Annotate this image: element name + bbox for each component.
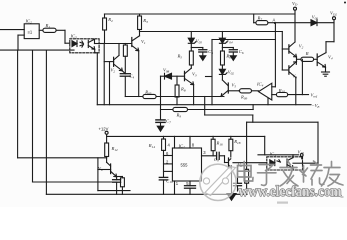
svg-text:R6: R6 <box>225 54 231 60</box>
svg-text:V2: V2 <box>111 68 116 74</box>
svg-text:V10: V10 <box>298 149 305 155</box>
svg-text:V9: V9 <box>98 166 103 172</box>
svg-text:V05: V05 <box>196 39 203 45</box>
svg-text:A: A <box>273 18 276 23</box>
svg-text:V2: V2 <box>299 44 304 50</box>
svg-text:IC2: IC2 <box>25 19 33 25</box>
svg-text:IC4: IC4 <box>256 82 264 88</box>
svg-text:R2: R2 <box>107 17 113 23</box>
svg-text:R09: R09 <box>240 95 248 101</box>
svg-text:R3: R3 <box>142 18 148 24</box>
svg-text:R5: R5 <box>176 54 182 60</box>
svg-text:C5: C5 <box>208 49 213 55</box>
svg-text:Vref: Vref <box>311 93 319 99</box>
svg-text:V1: V1 <box>141 39 146 45</box>
svg-text:C4: C4 <box>129 74 134 80</box>
svg-text:R8: R8 <box>180 87 186 93</box>
svg-text:V5: V5 <box>232 83 237 89</box>
svg-text:≥1: ≥1 <box>28 30 33 35</box>
svg-text:V02: V02 <box>228 70 235 76</box>
svg-text:R9: R9 <box>176 113 182 119</box>
svg-text:+12V: +12V <box>99 127 109 132</box>
svg-text:V04: V04 <box>226 39 233 45</box>
svg-text:R16: R16 <box>216 141 224 147</box>
svg-text:IC1: IC1 <box>178 143 186 149</box>
svg-text:V08: V08 <box>163 68 170 74</box>
svg-text:C7: C7 <box>166 119 171 125</box>
svg-text:IC3: IC3 <box>269 152 277 158</box>
svg-text:V06: V06 <box>312 15 319 21</box>
svg-text:V3: V3 <box>192 72 197 78</box>
svg-text:VD: VD <box>292 1 298 7</box>
svg-text:VD2: VD2 <box>330 11 337 17</box>
svg-text:R05: R05 <box>144 90 152 96</box>
svg-text:IC5: IC5 <box>70 34 78 40</box>
svg-text:8: 8 <box>192 143 195 148</box>
svg-text:R12: R12 <box>111 146 119 152</box>
svg-text:R: R <box>305 51 309 56</box>
svg-text:C10: C10 <box>166 178 173 184</box>
svg-text:C6: C6 <box>239 49 244 55</box>
svg-text:R14: R14 <box>148 143 156 149</box>
svg-text:C9: C9 <box>214 157 219 163</box>
svg-text:−VE: −VE <box>312 103 321 109</box>
svg-text:555: 555 <box>181 163 189 168</box>
svg-text:V5: V5 <box>293 74 298 80</box>
svg-text:R1: R1 <box>45 23 51 29</box>
svg-text:R18: R18 <box>233 139 241 145</box>
svg-text:V4: V4 <box>328 55 333 61</box>
svg-text:1: 1 <box>176 181 179 186</box>
svg-text:3: 3 <box>203 150 206 155</box>
svg-text:www.elecfans.com: www.elecfans.com <box>239 184 342 200</box>
svg-text:R7: R7 <box>257 16 263 22</box>
svg-text:R10: R10 <box>278 88 286 94</box>
svg-text:4: 4 <box>168 143 171 148</box>
